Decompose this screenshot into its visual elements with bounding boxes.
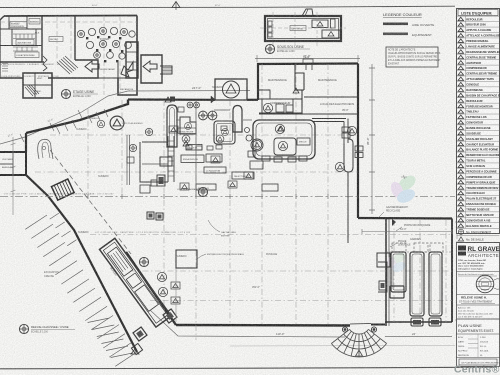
- top border line: [0, 6, 455, 7]
- bottom frame line: [0, 367, 497, 369]
- grid cross ticks on y=196: [88, 194, 328, 199]
- symbols near trailer: [157, 272, 166, 281]
- desks hatched: [2, 34, 38, 71]
- second watermark flower: [385, 250, 407, 274]
- north arrow mark on top line: [172, 2, 180, 8]
- wing right dim: [456, 220, 458, 322]
- vestiaire room west: [0, 152, 26, 175]
- scattered triangles: [165, 88, 299, 146]
- dimension line parallel below SW wall: [60, 337, 120, 339]
- tiny text rows: [1, 63, 61, 78]
- dashed property diagonal: [50, 150, 131, 254]
- main building walls: [26, 64, 452, 353]
- architect logo: [458, 246, 466, 251]
- hatch marks along NW wall exterior: [56, 109, 108, 134]
- site thin diagonal line NW: [0, 91, 128, 144]
- right sub-cluster equipment: big machine: [245, 119, 364, 244]
- right annex of etage plan: [126, 42, 172, 83]
- symbol legend rows under table: [457, 228, 500, 242]
- sous-sol label: [265, 44, 310, 53]
- drive loop NW: [38, 139, 53, 159]
- exterior stair box SW: [51, 179, 74, 200]
- etage label: [61, 89, 98, 98]
- boxed labels: [10, 19, 63, 58]
- foyer tables: [77, 27, 135, 59]
- callout labels above wing: [386, 206, 431, 247]
- boundary text runs: [4, 193, 190, 235]
- stairs hatch in foyer SW corner: [57, 56, 78, 74]
- dimension line over top wall: [128, 90, 250, 93]
- annex rooms below: [23, 73, 52, 98]
- pipes: [176, 110, 252, 120]
- plan label bottom-left: [19, 324, 75, 333]
- wavy break: [43, 56, 47, 71]
- south rooms of foyer: [48, 60, 137, 95]
- mezzanine edge line: [142, 141, 168, 143]
- poubelle symbols NW: [110, 116, 124, 130]
- fat arrows: [85, 61, 157, 77]
- grid dashes through plan: [0, 16, 137, 95]
- exterior stair west of tall section: [127, 135, 174, 193]
- trucks: [392, 243, 443, 252]
